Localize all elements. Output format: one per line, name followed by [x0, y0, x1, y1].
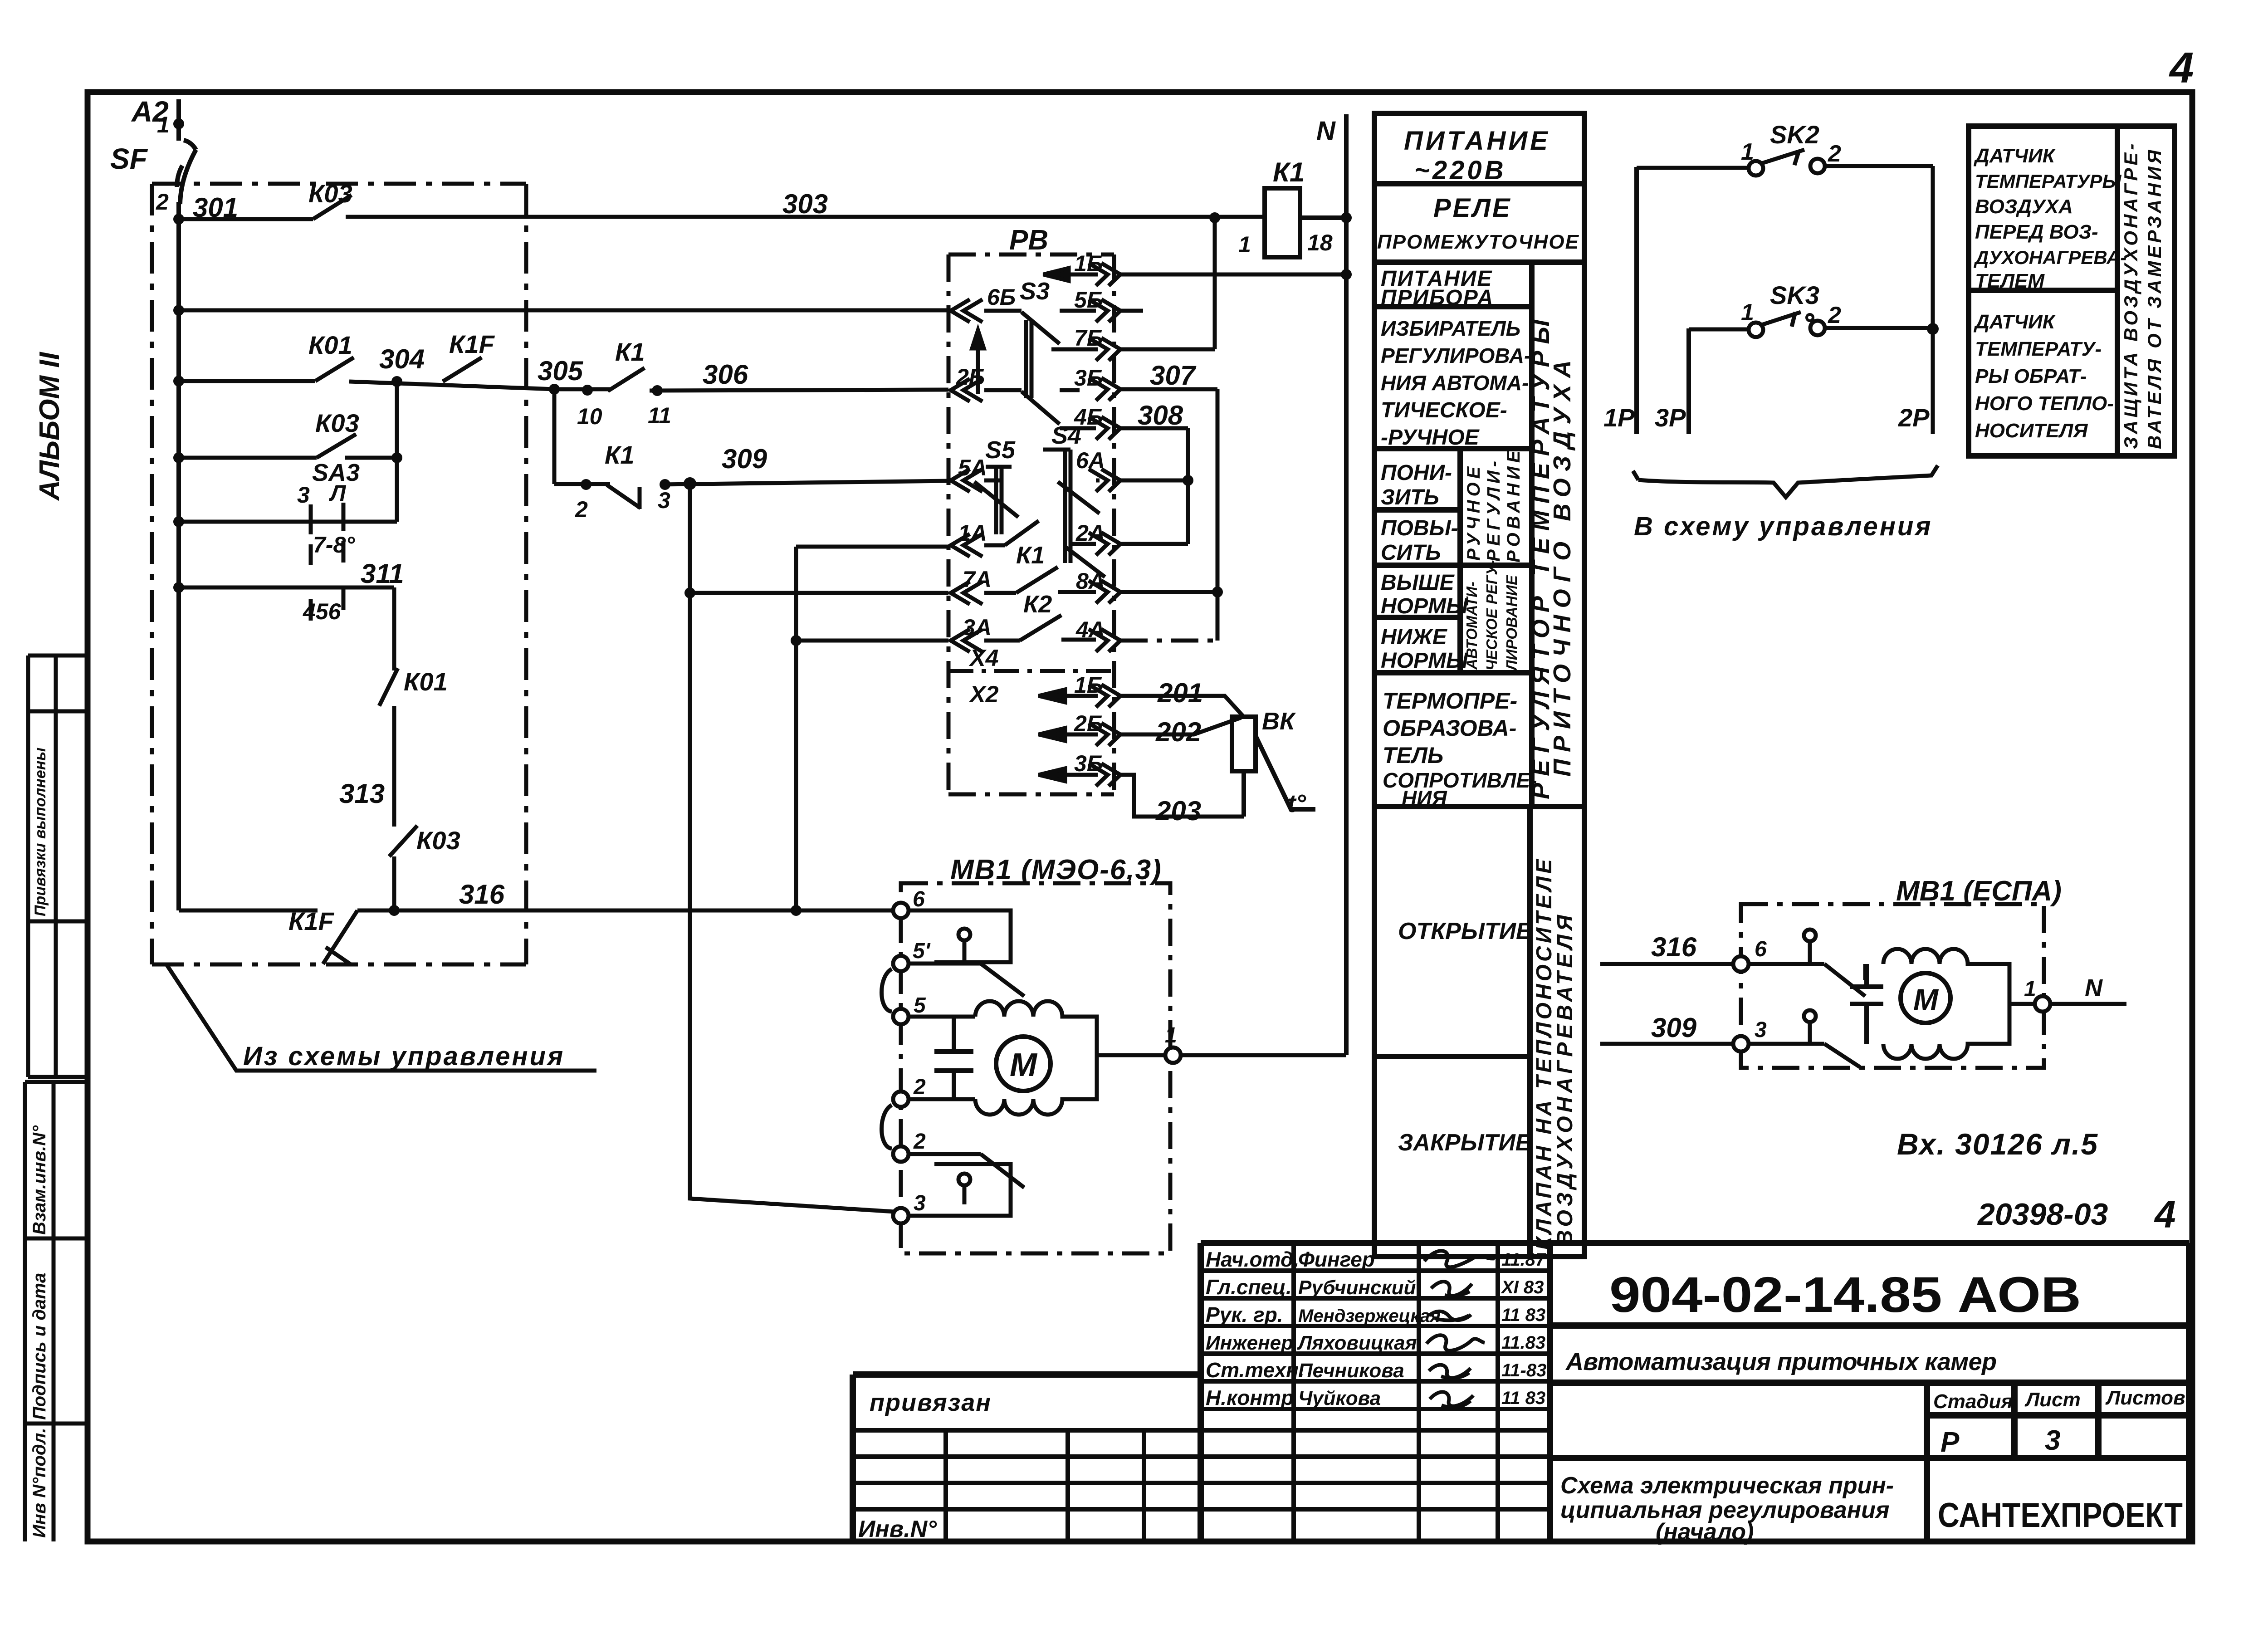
wire 5 to winding: [909, 1015, 975, 1019]
svg-text:316: 316: [1651, 932, 1697, 962]
limit switch upper: [909, 910, 1024, 996]
svg-text:7Б: 7Б: [1074, 325, 1103, 351]
svg-text:2Б: 2Б: [956, 364, 985, 390]
svg-text:К03: К03: [308, 179, 352, 208]
connector X4/X2 divider: [948, 669, 1114, 673]
svg-text:4: 4: [2154, 1193, 2176, 1236]
contact K1F on 316: [323, 910, 357, 964]
node 10: [582, 385, 593, 396]
svg-text:201: 201: [1157, 678, 1203, 708]
svg-text:АЛЬБОМ II: АЛЬБОМ II: [34, 352, 65, 501]
svg-text:ЗАКРЫТИЕ: ЗАКРЫТИЕ: [1398, 1130, 1532, 1156]
svg-text:303: 303: [782, 189, 828, 219]
svg-text:ВОЗДУХОНАГРЕВАТЕЛЯ: ВОЗДУХОНАГРЕВАТЕЛЯ: [1553, 911, 1577, 1246]
node SA3 right: [391, 452, 402, 463]
svg-text:Автоматизация приточных: Автоматизация приточных камер: [1565, 1348, 1997, 1375]
svg-text:3А: 3А: [963, 615, 992, 640]
svg-text:5А: 5А: [958, 455, 987, 480]
wire 304: [349, 382, 554, 389]
signature squiggles: [1424, 1251, 1495, 1407]
svg-text:М: М: [1010, 1047, 1038, 1083]
wire 307: [1120, 389, 1217, 641]
node 1B/N: [1341, 269, 1352, 280]
svg-text:Инв N°подл.: Инв N°подл.: [29, 1428, 49, 1538]
svg-text:ТЕМПЕРАТУ-: ТЕМПЕРАТУ-: [1975, 338, 2102, 360]
svg-text:ПИТАНИЕ: ПИТАНИЕ: [1404, 126, 1550, 156]
svg-text:РУЧНОЕ: РУЧНОЕ: [1464, 463, 1484, 561]
contact K01 on 313 chain: [379, 668, 398, 706]
svg-text:ПРОМЕЖУТОЧНОЕ: ПРОМЕЖУТОЧНОЕ: [1377, 231, 1579, 253]
jumper 5p-5: [882, 969, 892, 1012]
wire 4A dash link: [1120, 639, 1217, 643]
svg-text:Из схемы управления: Из схемы управления: [243, 1042, 565, 1071]
svg-text:К03: К03: [315, 409, 359, 437]
svg-text:Чуйкова: Чуйкова: [1298, 1387, 1381, 1409]
wire 6A: [1120, 479, 1188, 483]
svg-text:ВОЗДУХА: ВОЗДУХА: [1975, 196, 2073, 218]
title block outer lines: [853, 1243, 2189, 1541]
1B internal stub with arrow: [1043, 268, 1098, 281]
svg-text:НОРМЫ: НОРМЫ: [1381, 594, 1468, 618]
svg-text:ДАТЧИК: ДАТЧИК: [1973, 145, 2056, 167]
svg-text:1: 1: [2024, 977, 2036, 1001]
svg-text:Р: Р: [1941, 1427, 1960, 1458]
svg-text:3Б: 3Б: [1074, 365, 1103, 391]
svg-text:РЫ ОБРАТ-: РЫ ОБРАТ-: [1975, 365, 2087, 387]
terminal 2b: [893, 1146, 909, 1162]
svg-text:307: 307: [1150, 360, 1197, 391]
svg-text:1: 1: [1165, 1023, 1177, 1047]
svg-text:5': 5': [913, 939, 931, 963]
SA3 right vertical: [395, 382, 399, 522]
svg-text:1А: 1А: [958, 520, 987, 546]
svg-text:К1F: К1F: [288, 907, 335, 935]
svg-text:904-02-14.85 АОВ: 904-02-14.85 АОВ: [1609, 1267, 2081, 1323]
svg-text:К1: К1: [615, 338, 645, 366]
terminal 5p: [893, 956, 909, 971]
wire 7B riser: [1120, 218, 1215, 349]
riser 1P: [1634, 167, 1639, 434]
svg-text:11: 11: [648, 403, 671, 428]
svg-text:5: 5: [914, 993, 926, 1018]
terminal 1 espa: [2035, 996, 2050, 1012]
svg-text:ПОНИ-: ПОНИ-: [1381, 461, 1452, 485]
svg-text:К01: К01: [308, 331, 352, 359]
leader line from A2 box: [166, 964, 596, 1071]
bus junction dots: [173, 118, 184, 593]
svg-text:3Р: 3Р: [1655, 403, 1686, 432]
contact K2 3A-4A: [984, 615, 1096, 641]
svg-text:3: 3: [914, 1191, 926, 1215]
svg-text:7-8°: 7-8°: [313, 532, 355, 558]
svg-text:К1F: К1F: [449, 330, 495, 358]
svg-text:313: 313: [339, 778, 385, 809]
svg-text:РВ: РВ: [1009, 225, 1048, 256]
motor M circle: [996, 1037, 1051, 1091]
svg-text:СИТЬ: СИТЬ: [1381, 541, 1441, 565]
svg-text:20398-03: 20398-03: [1977, 1197, 2108, 1232]
node 11: [652, 385, 663, 396]
svg-text:2: 2: [913, 1075, 926, 1099]
node 305: [549, 384, 560, 395]
wire 1B to N bus: [1120, 273, 1346, 277]
svg-text:Гл.спец.: Гл.спец.: [1206, 1275, 1292, 1299]
table grid: [1374, 113, 1584, 1257]
svg-text:3: 3: [1755, 1018, 1767, 1042]
svg-text:2Р: 2Р: [1898, 403, 1930, 432]
svg-text:456: 456: [303, 599, 342, 624]
SA3 upper rail with K03 contact: [179, 434, 397, 458]
motor winding lower: [975, 1055, 1097, 1115]
svg-text:ТЕЛЬ: ТЕЛЬ: [1383, 743, 1443, 768]
svg-text:ЗИТЬ: ЗИТЬ: [1381, 485, 1439, 509]
svg-text:Листов: Листов: [2105, 1387, 2185, 1409]
svg-text:1: 1: [1741, 299, 1754, 326]
svg-text:ПРИТОЧНОГО ВОЗДУХА: ПРИТОЧНОГО ВОЗДУХА: [1549, 353, 1576, 777]
wire N espa: [2009, 1002, 2126, 1006]
svg-text:НИЯ: НИЯ: [1402, 786, 1447, 810]
svg-text:Стадия: Стадия: [1933, 1390, 2013, 1413]
svg-text:(начало): (начало): [1656, 1519, 1754, 1545]
svg-text:К1: К1: [1273, 157, 1305, 187]
svg-text:Рубчинский: Рубчинский: [1298, 1277, 1416, 1299]
svg-text:РОВАНИЕ: РОВАНИЕ: [1504, 447, 1524, 563]
terminal 3: [893, 1208, 909, 1223]
svg-text:-РУЧНОЕ: -РУЧНОЕ: [1381, 426, 1480, 450]
svg-text:t°: t°: [1287, 789, 1306, 817]
svg-text:Ляховицкая: Ляховицкая: [1297, 1332, 1417, 1354]
contact K03 on 313 chain: [389, 826, 417, 910]
capacitor espa: [1850, 964, 1883, 1044]
svg-text:ВК: ВК: [1262, 708, 1296, 735]
wire 201: [1120, 696, 1243, 716]
svg-text:ПЕРЕД ВОЗ-: ПЕРЕД ВОЗ-: [1975, 221, 2098, 243]
up arrow actuator: [972, 330, 984, 394]
contact K03 on 301: [313, 195, 352, 219]
X2 wire 2B with arrow: [1039, 728, 1098, 741]
node 2: [581, 479, 591, 490]
SA3 prongs: [311, 503, 343, 621]
svg-text:ПРИБОРА: ПРИБОРА: [1381, 286, 1494, 310]
svg-text:ОБРАЗОВА-: ОБРАЗОВА-: [1383, 715, 1516, 741]
svg-text:6А: 6А: [1076, 448, 1105, 473]
svg-text:1: 1: [1238, 232, 1251, 257]
svg-text:Схема электрическая прин-: Схема электрическая прин-: [1560, 1473, 1894, 1499]
wire 301: [179, 217, 313, 221]
junction node on 303: [1209, 212, 1220, 223]
terminal 6 espa: [1733, 956, 1749, 972]
PV dash-dot boundary: [948, 254, 1114, 794]
contact K1 2-3: [607, 485, 640, 509]
svg-text:МВ1 (МЭО-6,3): МВ1 (МЭО-6,3): [950, 854, 1162, 885]
svg-text:308: 308: [1138, 400, 1183, 431]
wire 309 stub: [1600, 1042, 1733, 1046]
svg-text:ТИЧЕСКОЕ-: ТИЧЕСКОЕ-: [1381, 398, 1507, 422]
motor M espa: [1901, 973, 1950, 1023]
wire 7A: [690, 591, 948, 595]
switch S4: [1043, 450, 1105, 577]
svg-text:ЗАЩИТА ВОЗДУХОНАГРЕ-: ЗАЩИТА ВОЗДУХОНАГРЕ-: [2120, 141, 2141, 449]
wire 316 stub: [1600, 962, 1733, 966]
svg-text:ТЕРМОПРЕ-: ТЕРМОПРЕ-: [1383, 688, 1517, 714]
right edge plug arrows: [1089, 263, 1120, 786]
svg-text:ВЫШЕ: ВЫШЕ: [1381, 571, 1455, 595]
wire 304 row from bus: [179, 379, 315, 383]
svg-text:В схему управления: В схему управления: [1634, 512, 1932, 541]
wire 2A: [1120, 542, 1188, 546]
svg-text:2: 2: [575, 497, 588, 522]
svg-text:К2: К2: [1023, 591, 1052, 618]
contact K1F: [443, 357, 482, 382]
svg-text:НОГО ТЕПЛО-: НОГО ТЕПЛО-: [1975, 392, 2114, 415]
svg-text:~220В: ~220В: [1414, 156, 1506, 185]
svg-text:Взам.инв.N°: Взам.инв.N°: [29, 1125, 49, 1235]
node 3A: [791, 635, 802, 646]
winding upper espa: [1883, 949, 2009, 1004]
svg-text:Рук. гр.: Рук. гр.: [1206, 1303, 1283, 1326]
svg-text:SF: SF: [110, 142, 148, 175]
contact K1 7A-8A: [984, 567, 1096, 593]
svg-text:4: 4: [2169, 44, 2194, 92]
svg-text:203: 203: [1155, 796, 1201, 826]
svg-text:XI 83: XI 83: [1501, 1277, 1544, 1297]
X2 wire 3B with arrow: [1039, 768, 1098, 781]
left edge plug arrows: [951, 299, 982, 652]
svg-text:11 83: 11 83: [1501, 1305, 1545, 1325]
svg-text:202: 202: [1155, 717, 1201, 747]
stub 5B: [1120, 309, 1143, 313]
svg-text:Л: Л: [329, 480, 347, 506]
node 8A/307: [1212, 587, 1223, 597]
svg-text:309: 309: [722, 444, 767, 474]
svg-text:309: 309: [1651, 1013, 1697, 1043]
svg-text:6: 6: [913, 887, 925, 911]
svg-text:РЕГУЛИРОВА-: РЕГУЛИРОВА-: [1381, 344, 1531, 367]
svg-text:привязан: привязан: [870, 1389, 992, 1416]
svg-text:X4: X4: [968, 645, 999, 671]
svg-text:6Б: 6Б: [987, 284, 1016, 310]
svg-text:Печникова: Печникова: [1298, 1360, 1404, 1382]
wire 2 to winding: [909, 1097, 975, 1101]
svg-text:ТЕЛЕМ: ТЕЛЕМ: [1975, 270, 2045, 292]
svg-text:3Б: 3Б: [1074, 751, 1103, 776]
wire 1A: [796, 545, 948, 549]
contact K01: [315, 357, 354, 381]
signature table grid: [853, 1243, 1550, 1541]
svg-text:S5: S5: [985, 436, 1016, 464]
svg-text:2: 2: [913, 1130, 926, 1154]
node 7A: [684, 587, 695, 598]
svg-text:18: 18: [1307, 230, 1333, 255]
relay coil K1: [1265, 188, 1346, 257]
winding lower espa: [1883, 1004, 2009, 1059]
wire 202: [1120, 718, 1241, 734]
svg-text:ЧЕСКОЕ РЕГУ-: ЧЕСКОЕ РЕГУ-: [1483, 560, 1500, 670]
A2 device dash-dot boundary: [152, 184, 526, 964]
node 3: [660, 479, 670, 490]
svg-text:Инв.N°: Инв.N°: [858, 1516, 937, 1542]
svg-text:ЛИРОВАНИЕ: ЛИРОВАНИЕ: [1503, 575, 1520, 671]
thermistor VK: [1232, 717, 1315, 817]
svg-text:ДУХОНАГРЕВА-: ДУХОНАГРЕВА-: [1974, 247, 2126, 268]
node 316/313: [389, 905, 400, 916]
terminal 1: [1165, 1047, 1181, 1063]
switch lower espa: [1749, 1010, 1860, 1067]
svg-text:НИЖЕ: НИЖЕ: [1381, 625, 1448, 649]
svg-text:3: 3: [297, 482, 310, 508]
svg-text:311: 311: [361, 558, 404, 589]
wire 309 row: [554, 481, 948, 484]
svg-text:Фингер: Фингер: [1298, 1248, 1375, 1271]
svg-text:1: 1: [157, 112, 170, 137]
svg-text:SK2: SK2: [1770, 120, 1819, 149]
svg-text:Подпись и дата: Подпись и дата: [29, 1273, 49, 1420]
S3 second pole 2B-4B: [984, 390, 1096, 428]
capacitor MV1: [934, 1017, 973, 1099]
svg-text:S4: S4: [1051, 422, 1081, 449]
switch S3: [984, 311, 1098, 398]
limit switch lower: [909, 1154, 1024, 1216]
wire 3A: [796, 639, 948, 643]
MV1 dash-dot boundary: [901, 883, 1170, 1253]
svg-text:301: 301: [193, 192, 238, 223]
terminal 3 espa: [1733, 1036, 1749, 1052]
svg-text:11-83: 11-83: [1501, 1360, 1546, 1380]
svg-text:РЕЛЕ: РЕЛЕ: [1433, 193, 1512, 223]
svg-text:НОРМЫ: НОРМЫ: [1381, 649, 1468, 673]
wire 6B row: [179, 308, 948, 313]
node 309/riser: [684, 477, 696, 490]
svg-text:6: 6: [1755, 937, 1767, 961]
wire 316: [179, 909, 901, 913]
riser 309 to MV1 terminal 3: [690, 484, 901, 1212]
svg-text:304: 304: [379, 344, 425, 374]
svg-text:ТЕМПЕРАТУРЫ: ТЕМПЕРАТУРЫ: [1975, 171, 2121, 192]
svg-text:К1: К1: [605, 440, 635, 469]
svg-text:10: 10: [577, 404, 602, 429]
svg-text:ДАТЧИК: ДАТЧИК: [1973, 311, 2056, 333]
MV1 ESPA dash-dot boundary: [1741, 904, 2044, 1068]
svg-text:Н.контр: Н.контр: [1206, 1386, 1294, 1409]
svg-text:2: 2: [156, 189, 169, 215]
svg-text:305: 305: [538, 356, 584, 386]
N bus: [1344, 114, 1349, 1055]
svg-text:К03: К03: [416, 826, 460, 855]
svg-text:МВ1 (ЕСПА): МВ1 (ЕСПА): [1896, 876, 2062, 907]
svg-text:Ст.техн.: Ст.техн.: [1206, 1358, 1305, 1382]
svg-text:316: 316: [459, 879, 505, 910]
terminal 6: [893, 903, 909, 918]
wire 303: [346, 215, 1265, 219]
svg-text:Инженер: Инженер: [1206, 1332, 1293, 1354]
wire 305-306 with K1 contact 10-11: [554, 368, 948, 391]
wire 308: [1120, 428, 1188, 544]
svg-text:АВТОМАТИ-: АВТОМАТИ-: [1463, 582, 1480, 670]
wire 309 riser from 305: [552, 389, 557, 484]
switch upper espa: [1749, 930, 1865, 996]
wire 1 to N bus: [1097, 1053, 1346, 1057]
svg-text:ОТКРЫТИЕ: ОТКРЫТИЕ: [1398, 918, 1532, 944]
svg-text:САНТЕХПРОЕКТ: САНТЕХПРОЕКТ: [1938, 1496, 2183, 1535]
node 304/SA3: [391, 376, 402, 387]
wire 311: [179, 587, 394, 670]
riser 1A/3A: [794, 547, 798, 910]
breaker SF: [177, 99, 196, 219]
svg-text:N: N: [2085, 974, 2103, 1002]
svg-text:М: М: [1913, 983, 1939, 1016]
svg-text:N: N: [1316, 116, 1336, 146]
junction at N bus: [1341, 212, 1352, 223]
svg-text:2: 2: [1828, 302, 1841, 328]
wire 8A: [1120, 590, 1217, 594]
svg-text:306: 306: [703, 359, 748, 390]
X2 wire 1B with arrow: [1039, 690, 1098, 702]
left stamp column boxes: [25, 656, 88, 1541]
svg-text:Лист: Лист: [2024, 1389, 2081, 1411]
S5 1A link: [984, 521, 1039, 545]
switch S5: [974, 467, 1018, 534]
svg-text:К1: К1: [1016, 542, 1045, 569]
SA3 lower rail: [179, 520, 397, 524]
node SK2/SK3: [1927, 323, 1939, 335]
thermal contact SK3: [1689, 312, 1933, 337]
svg-text:7А: 7А: [963, 567, 992, 592]
svg-text:НИЯ АВТОМА-: НИЯ АВТОМА-: [1381, 371, 1529, 395]
riser 3P: [1686, 328, 1691, 434]
thermal contact SK2: [1637, 150, 1933, 434]
jumper 2-2: [882, 1105, 892, 1149]
brace to control circuit: [1633, 465, 1938, 497]
svg-text:3: 3: [2045, 1425, 2060, 1456]
svg-text:SK3: SK3: [1770, 281, 1819, 309]
svg-text:РЕГУЛИ-: РЕГУЛИ-: [1484, 457, 1504, 562]
node 316/riser: [791, 905, 802, 916]
svg-text:X2: X2: [968, 681, 999, 708]
svg-text:S3: S3: [1020, 278, 1050, 305]
motor winding upper: [975, 1001, 1097, 1055]
svg-text:ИЗБИРАТЕЛЬ: ИЗБИРАТЕЛЬ: [1381, 317, 1520, 340]
svg-text:11.83: 11.83: [1501, 1333, 1545, 1353]
svg-text:К01: К01: [404, 667, 448, 696]
terminal 2a: [893, 1091, 909, 1107]
svg-text:3: 3: [658, 488, 670, 513]
svg-text:11 83: 11 83: [1501, 1388, 1545, 1408]
svg-text:Мендзержецкая: Мендзержецкая: [1298, 1306, 1441, 1326]
svg-text:1: 1: [1741, 139, 1754, 165]
terminal 5: [893, 1009, 909, 1024]
svg-text:11.87: 11.87: [1501, 1250, 1546, 1270]
svg-text:Вх. 30126 л.5: Вх. 30126 л.5: [1897, 1127, 2098, 1161]
svg-text:НОСИТЕЛЯ: НОСИТЕЛЯ: [1975, 420, 2088, 442]
svg-text:Нач.отд.: Нач.отд.: [1206, 1248, 1299, 1271]
svg-text:ПОВЫ-: ПОВЫ-: [1381, 516, 1458, 540]
wire 313: [392, 706, 396, 827]
svg-text:Привязки выполнены: Привязки выполнены: [32, 748, 49, 916]
svg-text:2: 2: [1828, 141, 1841, 167]
left supply bus: [176, 202, 181, 910]
svg-text:ВАТЕЛЯ ОТ ЗАМЕРЗАНИЯ: ВАТЕЛЯ ОТ ЗАМЕРЗАНИЯ: [2144, 147, 2165, 449]
svg-text:1Р: 1Р: [1603, 403, 1635, 432]
node 6A/308: [1183, 475, 1193, 486]
wire 203: [1120, 775, 1244, 817]
